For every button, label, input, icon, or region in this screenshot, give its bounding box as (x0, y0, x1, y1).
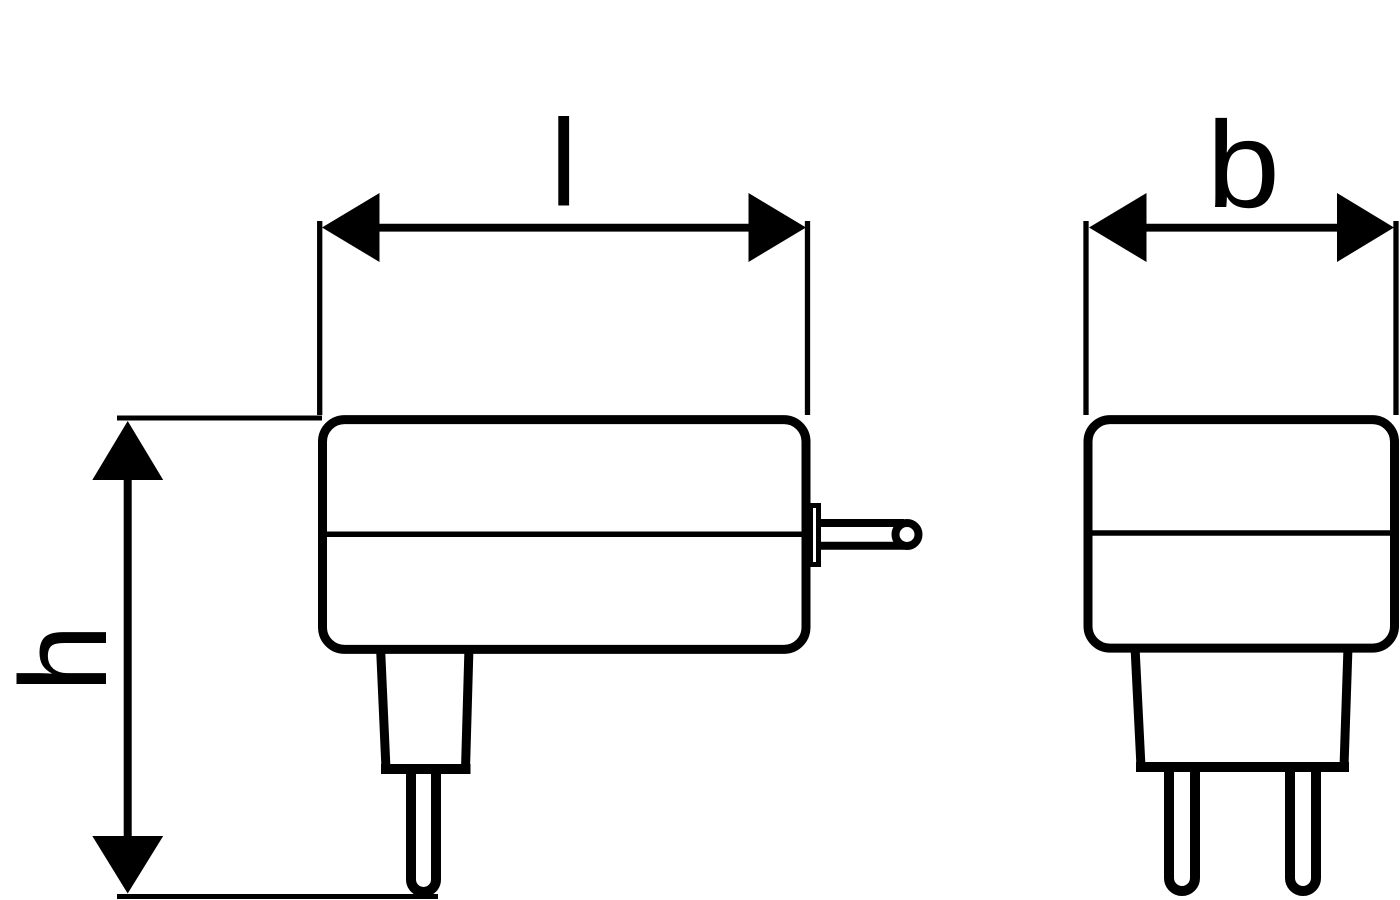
svg-text:l: l (550, 96, 577, 233)
svg-text:h: h (0, 624, 133, 692)
svg-text:b: b (1207, 96, 1280, 234)
